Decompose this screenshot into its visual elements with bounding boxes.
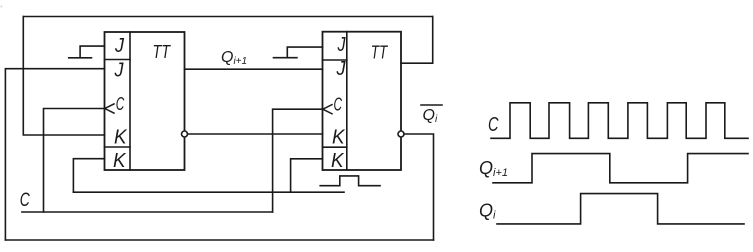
svg-text:Qi: Qi <box>423 107 438 125</box>
svg-text:J: J <box>337 34 347 56</box>
svg-text:C: C <box>334 95 343 115</box>
wire: left vertical to U1 K1 <box>23 17 104 136</box>
U1 input column divider <box>129 32 131 170</box>
U1 divider below J1 <box>105 59 131 61</box>
wire: top feedback rail <box>23 16 432 18</box>
svg-text:TT: TT <box>153 42 172 62</box>
wire: far-left vertical feedback to U1 J2 <box>5 69 104 240</box>
wire: C branch to U1 clock <box>44 109 105 213</box>
wire: U1 inverted output to U2 K1 <box>188 133 323 135</box>
wire: K2 bus to U2 K2 <box>291 159 323 192</box>
U2 divider K1/K2 <box>323 146 347 148</box>
logic-1 symbol at U1 J1 <box>69 46 105 58</box>
flip-flop U1 outline <box>105 32 185 170</box>
wire: Qi+1 net U1 output to U2 J2 <box>185 68 323 70</box>
wire: C branch to U2 clock <box>273 109 323 212</box>
U2 input column divider <box>346 32 348 170</box>
logic-1 symbol at U2 J1 <box>274 47 323 58</box>
svg-text:C: C <box>20 190 30 211</box>
pulse symbol below U2 <box>320 176 380 186</box>
waveform Qi <box>497 194 744 224</box>
flip-flop U2 outline <box>323 32 402 170</box>
U1 inverted output circle <box>182 131 188 137</box>
wire: U2 inverted output down to bottom rail <box>404 134 434 240</box>
U1 dynamic clock arrow <box>105 104 114 113</box>
svg-text:TT: TT <box>371 42 389 62</box>
svg-text:C: C <box>488 114 499 136</box>
U2 divider below J1 <box>323 59 347 61</box>
wire: C input line <box>22 211 273 213</box>
overline of inverted Qi <box>421 104 442 106</box>
svg-text:J: J <box>336 58 347 80</box>
U1 divider K1/K2 <box>105 146 131 148</box>
svg-text:K: K <box>113 150 127 172</box>
wire: K2 bus to U1 K2 <box>73 159 104 193</box>
svg-text:C: C <box>116 94 125 114</box>
U2 dynamic clock arrow <box>323 105 332 114</box>
U2 inverted output circle <box>398 131 404 137</box>
wire: K2 bus <box>73 191 344 193</box>
clock waveform C <box>491 103 748 139</box>
wire: bottom feedback rail <box>5 239 433 241</box>
wire: U2 direct output to top rail <box>401 17 433 64</box>
svg-text:K: K <box>114 127 128 149</box>
svg-text:Qi+1: Qi+1 <box>221 49 247 67</box>
svg-text:J: J <box>114 35 125 57</box>
svg-text:K: K <box>332 127 346 149</box>
svg-text:J: J <box>114 60 125 82</box>
svg-text:K: K <box>331 150 345 172</box>
svg-text:Qi: Qi <box>479 201 496 222</box>
waveform Qi+1 <box>493 154 748 183</box>
svg-text:Qi+1: Qi+1 <box>479 158 508 179</box>
scan artifact dot <box>1 6 3 8</box>
